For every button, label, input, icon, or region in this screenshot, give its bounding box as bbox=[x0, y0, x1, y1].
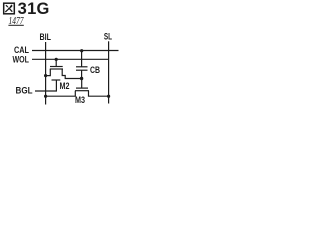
svg-text:WOL: WOL bbox=[13, 54, 30, 64]
wire BGL horizontal line to M2 back gate bbox=[35, 80, 56, 91]
node junction dot on CAL at capacitor bbox=[80, 49, 83, 52]
node junction dot on BIL at M3 bbox=[44, 95, 47, 98]
svg-text:BGL: BGL bbox=[16, 86, 33, 96]
transistor M2 bbox=[46, 59, 82, 80]
svg-text:M2: M2 bbox=[60, 81, 70, 91]
wire SL vertical line bbox=[108, 41, 110, 103]
capacitor CB bbox=[76, 51, 88, 79]
svg-text:SL: SL bbox=[104, 32, 112, 42]
svg-text:CB: CB bbox=[90, 65, 100, 75]
node junction dot on SL at M3 bbox=[107, 95, 110, 98]
title kanji ZU (figure) glyph bbox=[4, 3, 15, 14]
node junction dot on BIL at M2 source bbox=[44, 74, 47, 77]
node junction dot on WOL at M2 gate bbox=[55, 58, 58, 61]
svg-text:M3: M3 bbox=[75, 95, 85, 105]
transistor M3 bbox=[46, 79, 109, 97]
wire WOL horizontal line bbox=[32, 58, 109, 60]
wire CAL horizontal line bbox=[32, 50, 119, 52]
wire BIL vertical line bbox=[45, 42, 47, 105]
node FN junction dot below capacitor bbox=[80, 77, 83, 80]
underline of 1477 bbox=[8, 24, 23, 26]
svg-text:BIL: BIL bbox=[40, 32, 52, 42]
